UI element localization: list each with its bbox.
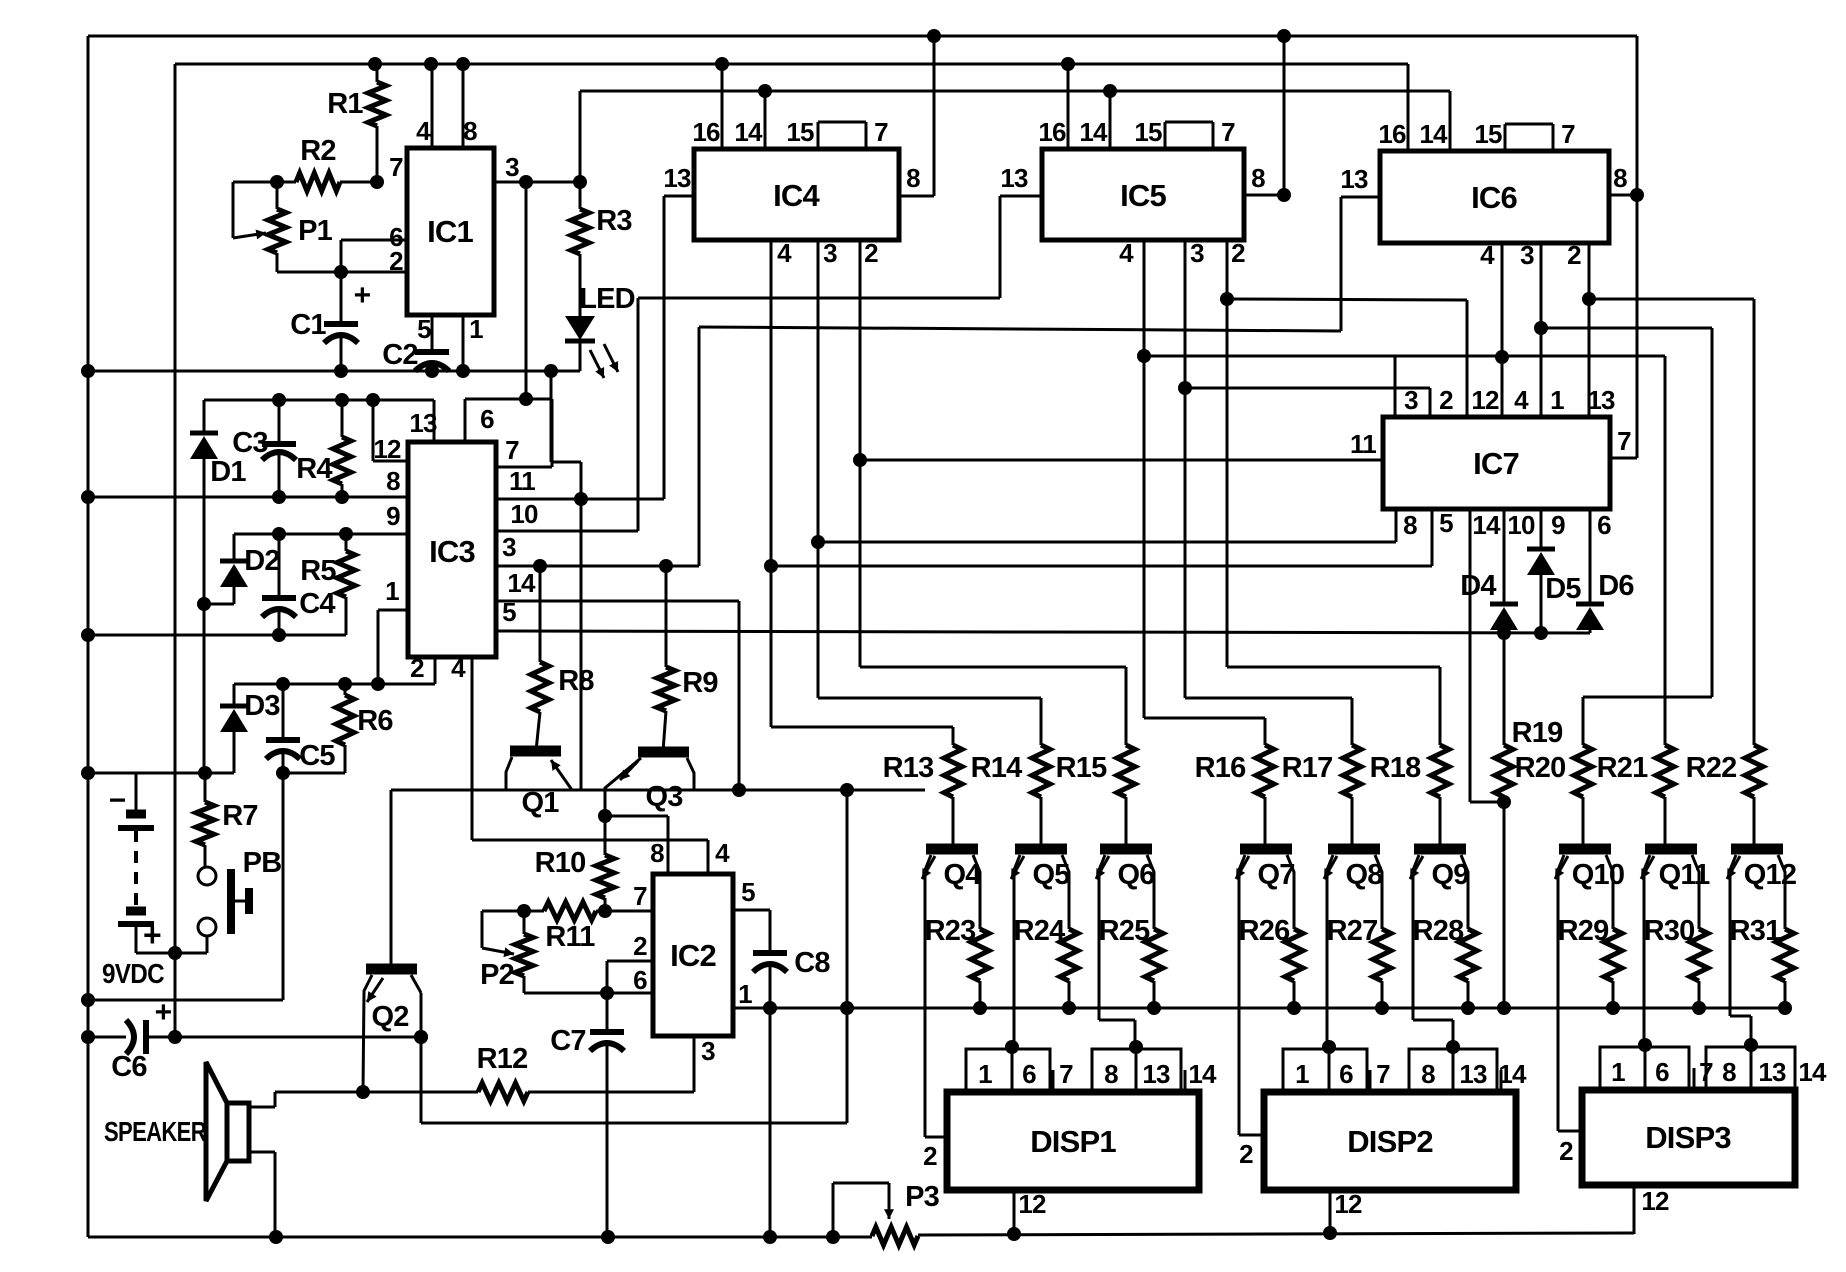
label IC3 pin5r bbox=[502, 597, 516, 627]
wire IC1 pin3 net bbox=[494, 175, 587, 189]
svg-text:15: 15 bbox=[1134, 117, 1162, 147]
wire V+ vertical x175 bbox=[168, 64, 182, 1044]
svg-text:R7: R7 bbox=[222, 800, 257, 832]
label IC5 pin15 bbox=[1134, 117, 1162, 147]
wire IC4 pin13 bbox=[664, 196, 694, 499]
svg-text:Q3: Q3 bbox=[645, 781, 683, 813]
label DISP1 pin8 bbox=[1104, 1059, 1118, 1089]
label C6 plus bbox=[155, 996, 172, 1029]
svg-text:R8: R8 bbox=[558, 665, 594, 697]
svg-text:9VDC: 9VDC bbox=[102, 958, 164, 989]
label R31 bbox=[1730, 915, 1781, 947]
wire P1 wiper bbox=[233, 182, 266, 239]
wire IC7 pin6 bbox=[1589, 509, 1592, 604]
label C5 bbox=[299, 740, 335, 772]
svg-text:SPEAKER: SPEAKER bbox=[104, 1116, 206, 1147]
svg-text:13: 13 bbox=[409, 408, 437, 438]
wire D3 anode rail y773 bbox=[88, 766, 234, 780]
svg-text:LED: LED bbox=[579, 283, 635, 315]
label Q9 bbox=[1431, 859, 1469, 891]
wire IC3 pin14 net bbox=[496, 601, 739, 790]
label D3 bbox=[244, 690, 280, 722]
wire Q2 right leg bbox=[414, 993, 428, 1123]
label IC3 pin3r bbox=[502, 532, 516, 562]
label IC5 pin14 bbox=[1079, 117, 1108, 147]
wire DISP3 pin12 bbox=[1633, 1185, 1636, 1234]
ic IC1 bbox=[407, 148, 494, 315]
svg-text:12: 12 bbox=[1471, 385, 1499, 415]
label R11 bbox=[545, 921, 595, 953]
transistor Q8 bbox=[1324, 849, 1382, 1045]
wire IC5 pin4 bbox=[1137, 240, 1265, 718]
label R25 bbox=[1099, 915, 1150, 947]
wire DISP1 pinbox813 bbox=[1092, 1040, 1181, 1092]
label C4 bbox=[299, 588, 335, 620]
wire IC2 pin4 bbox=[472, 657, 708, 874]
svg-text:7: 7 bbox=[1617, 426, 1631, 456]
label R16 bbox=[1195, 752, 1246, 784]
wire IC6 loop 15-7 bbox=[1505, 124, 1553, 151]
svg-text:R23: R23 bbox=[925, 915, 976, 947]
capacitor C6 bbox=[88, 1020, 428, 1054]
svg-text:14: 14 bbox=[1419, 119, 1448, 149]
label IC7 pin9 bbox=[1551, 510, 1565, 540]
svg-text:Q7: Q7 bbox=[1257, 859, 1294, 891]
svg-text:6: 6 bbox=[1597, 510, 1611, 540]
wire IC5 pin14 bbox=[1109, 91, 1112, 149]
svg-text:2: 2 bbox=[1439, 385, 1453, 415]
wire IC3 pin10 net y531 bbox=[496, 530, 638, 533]
label Q3 bbox=[645, 781, 683, 813]
label IC7 pin12 bbox=[1471, 385, 1499, 415]
capacitor C7 bbox=[590, 993, 624, 1237]
label DISP1 pin13 bbox=[1142, 1059, 1170, 1089]
svg-text:R19: R19 bbox=[1512, 717, 1563, 749]
label IC7 pin5 bbox=[1439, 508, 1453, 538]
label DISP1 pin1 bbox=[978, 1059, 992, 1089]
wire DISP2 pinbox813 bbox=[1409, 1040, 1497, 1092]
svg-text:6: 6 bbox=[1022, 1059, 1036, 1089]
label D5 bbox=[1545, 573, 1581, 605]
svg-text:14: 14 bbox=[1798, 1057, 1827, 1087]
svg-text:3: 3 bbox=[701, 1036, 715, 1066]
label DISP2 bbox=[1347, 1124, 1433, 1159]
wire IC1 pin5 bbox=[431, 315, 434, 352]
label DISP3 pin8 bbox=[1722, 1057, 1736, 1087]
resistor R19 bbox=[1495, 633, 1513, 1015]
svg-text:R26: R26 bbox=[1239, 915, 1290, 947]
label IC6 bbox=[1471, 180, 1517, 215]
svg-text:16: 16 bbox=[692, 117, 720, 147]
resistor R4 bbox=[333, 400, 351, 497]
label IC6 pin14 bbox=[1419, 119, 1448, 149]
label IC1 pin3 bbox=[505, 152, 519, 182]
wire IC3 pin1 bbox=[378, 610, 408, 684]
svg-text:7: 7 bbox=[1221, 117, 1235, 147]
svg-text:8: 8 bbox=[1613, 163, 1627, 193]
label DISP1 pin2 bbox=[923, 1141, 937, 1171]
wire IC7 pin3 bbox=[1394, 356, 1397, 417]
wire IC4 pin4 bbox=[764, 240, 953, 727]
label IC3 pin7r bbox=[505, 435, 519, 465]
svg-text:IC2: IC2 bbox=[670, 938, 716, 973]
wire IC4 pin14 bbox=[764, 91, 767, 149]
label IC5 bbox=[1120, 178, 1166, 213]
wire IC3 pin8 rail y497 bbox=[88, 490, 408, 504]
wire IC6 pin14 bbox=[1449, 91, 1452, 151]
label C3 bbox=[232, 427, 268, 459]
label R14 bbox=[971, 752, 1022, 784]
wire D1C3R4 rail y400 bbox=[204, 393, 434, 407]
ic IC2 bbox=[653, 874, 733, 1036]
resistor R31 bbox=[1776, 886, 1794, 1015]
label DISP2 pin8 bbox=[1421, 1059, 1435, 1089]
diode D6 bbox=[1576, 604, 1604, 633]
wire IC6 pin8 bbox=[1609, 194, 1637, 197]
svg-text:R9: R9 bbox=[682, 667, 718, 699]
wire IC3 pin11 net y499 bbox=[496, 492, 664, 506]
wire x581 Q1 emitter bbox=[551, 369, 581, 790]
svg-text:6: 6 bbox=[633, 965, 647, 995]
svg-text:2: 2 bbox=[1231, 238, 1245, 268]
svg-text:D1: D1 bbox=[210, 456, 246, 488]
wire net y299 to R22 bbox=[1753, 299, 1756, 745]
capacitor C8 bbox=[753, 953, 787, 1237]
potentiometer P1 bbox=[268, 182, 286, 272]
wire DISP1 pin12 bbox=[1013, 1190, 1016, 1234]
wire IC4 pin3 bbox=[811, 240, 1041, 698]
ic IC6 bbox=[1380, 151, 1609, 243]
svg-text:14: 14 bbox=[507, 568, 536, 598]
label IC7 pin8 bbox=[1403, 510, 1417, 540]
svg-text:IC3: IC3 bbox=[429, 534, 475, 569]
label battery minus bbox=[109, 784, 126, 817]
svg-text:4: 4 bbox=[416, 116, 431, 146]
wire net y327 bbox=[699, 327, 1341, 331]
svg-text:IC6: IC6 bbox=[1471, 180, 1517, 215]
label C2 bbox=[382, 339, 417, 371]
wire DISP3 pin7 tick bbox=[1693, 1068, 1696, 1090]
wire Q3 emitter to R10 bbox=[598, 809, 612, 855]
resistor R18 bbox=[1431, 667, 1449, 849]
svg-text:IC7: IC7 bbox=[1473, 446, 1519, 481]
label IC1 pin5 bbox=[417, 314, 431, 344]
label P1 bbox=[298, 215, 333, 247]
svg-text:14: 14 bbox=[1472, 510, 1501, 540]
wire net y566 bbox=[771, 509, 1432, 566]
transistor Q4 bbox=[922, 849, 980, 1137]
svg-text:3: 3 bbox=[502, 532, 516, 562]
label R19 bbox=[1512, 717, 1563, 749]
svg-text:8: 8 bbox=[1104, 1059, 1118, 1089]
svg-text:R17: R17 bbox=[1282, 752, 1333, 784]
potentiometer P3 bbox=[872, 1227, 918, 1245]
label R13 bbox=[883, 752, 934, 784]
wire C5 down to y1000 bbox=[88, 773, 283, 1000]
svg-text:2: 2 bbox=[633, 931, 647, 961]
wire DISP2 pin7 tick bbox=[1369, 1070, 1372, 1092]
capacitor C1 bbox=[324, 272, 358, 371]
label IC3 pin8 bbox=[386, 466, 400, 496]
label IC2 pin2 bbox=[633, 931, 647, 961]
transistor Q6 bbox=[1096, 849, 1154, 1045]
wire speaker top bbox=[249, 1092, 275, 1107]
label IC4 pin7 bbox=[874, 117, 888, 147]
svg-text:8: 8 bbox=[1403, 510, 1417, 540]
wire DISP3 pin2 bbox=[1558, 1130, 1582, 1133]
wire x847 link bbox=[840, 790, 854, 1123]
wire V+ rail y64 bbox=[175, 57, 1408, 71]
wire IC3 pin7 loop bbox=[465, 399, 552, 467]
wire DISP1 pinbox16 bbox=[966, 1040, 1050, 1092]
svg-text:15: 15 bbox=[1474, 119, 1502, 149]
svg-text:R4: R4 bbox=[296, 453, 332, 485]
wire IC6 pin13 bbox=[1341, 197, 1380, 331]
svg-text:8: 8 bbox=[386, 466, 400, 496]
diode D1 bbox=[190, 400, 218, 773]
label IC6 pin13 bbox=[1340, 164, 1368, 194]
resistor R30 bbox=[1690, 886, 1708, 1015]
svg-text:10: 10 bbox=[1507, 510, 1535, 540]
diode D2 bbox=[197, 534, 248, 611]
label IC2 pin7 bbox=[633, 881, 647, 911]
diode D4 bbox=[1490, 604, 1518, 633]
wire IC3 pin12 bbox=[373, 400, 408, 461]
label R20 bbox=[1515, 752, 1566, 784]
svg-text:8: 8 bbox=[650, 838, 664, 868]
svg-text:7: 7 bbox=[874, 117, 888, 147]
svg-text:+: + bbox=[155, 996, 172, 1029]
wire top border bbox=[88, 29, 1637, 43]
svg-text:8: 8 bbox=[1251, 163, 1265, 193]
wire IC7 pin9 bbox=[1540, 509, 1543, 549]
wire net y542 bbox=[818, 509, 1396, 542]
resistor R23 bbox=[971, 886, 989, 1015]
svg-text:R28: R28 bbox=[1413, 915, 1464, 947]
diode D3 bbox=[220, 684, 248, 773]
svg-text:1: 1 bbox=[1550, 385, 1564, 415]
label R24 bbox=[1014, 915, 1065, 947]
resistor R16 bbox=[1256, 718, 1274, 849]
label 9VDC bbox=[102, 958, 164, 989]
label IC7 pin4 bbox=[1514, 385, 1529, 415]
label IC6 pin7 bbox=[1561, 119, 1575, 149]
svg-text:4: 4 bbox=[1480, 240, 1495, 270]
label IC6 pin3 bbox=[1520, 240, 1534, 270]
label DISP3 bbox=[1645, 1120, 1731, 1155]
label R26 bbox=[1239, 915, 1290, 947]
wire IC6 pin16 bbox=[1407, 64, 1410, 151]
label PB bbox=[243, 847, 282, 879]
svg-text:5: 5 bbox=[741, 877, 755, 907]
wire Q2 collector baseline bbox=[391, 783, 925, 797]
label Q2 bbox=[371, 1001, 408, 1033]
label IC1 pin6 bbox=[389, 222, 403, 252]
label IC2 bbox=[670, 938, 716, 973]
label IC5 pin8 bbox=[1251, 163, 1265, 193]
svg-text:PB: PB bbox=[243, 847, 282, 879]
label P2 bbox=[480, 959, 514, 991]
label IC2 pin6 bbox=[633, 965, 647, 995]
svg-text:7: 7 bbox=[389, 152, 403, 182]
label IC1 bbox=[427, 214, 473, 249]
svg-text:R24: R24 bbox=[1014, 915, 1065, 947]
label DISP3 pin6 bbox=[1655, 1057, 1669, 1087]
svg-text:7: 7 bbox=[1059, 1059, 1073, 1089]
wire x699 up bbox=[698, 327, 701, 566]
label IC3 pin10r bbox=[510, 499, 538, 529]
svg-text:1: 1 bbox=[469, 314, 483, 344]
svg-text:D6: D6 bbox=[1598, 570, 1634, 602]
resistor R14 bbox=[1032, 698, 1050, 849]
svg-text:15: 15 bbox=[786, 117, 814, 147]
label D4 bbox=[1460, 570, 1496, 602]
ic IC3 bbox=[408, 442, 496, 657]
svg-text:Q2: Q2 bbox=[371, 1001, 408, 1033]
led LED bbox=[565, 316, 595, 371]
resistor R10 bbox=[596, 855, 614, 911]
label R22 bbox=[1686, 752, 1737, 784]
label P3 bbox=[905, 1181, 940, 1213]
svg-text:C4: C4 bbox=[299, 588, 335, 620]
label IC2 pin3 bbox=[701, 1036, 715, 1066]
svg-text:P2: P2 bbox=[480, 959, 514, 991]
label IC1 pin7 bbox=[389, 152, 403, 182]
label R7 bbox=[222, 800, 257, 832]
resistor R3 bbox=[571, 91, 589, 316]
wire bottom border right bbox=[918, 1226, 1634, 1241]
svg-text:R20: R20 bbox=[1515, 752, 1566, 784]
wire left border bus bbox=[81, 36, 95, 1237]
resistor R7 bbox=[196, 773, 214, 867]
svg-text:3: 3 bbox=[1190, 238, 1204, 268]
wire IC5 pin13 bbox=[1000, 196, 1042, 298]
svg-text:3: 3 bbox=[1520, 240, 1534, 270]
svg-text:1: 1 bbox=[1295, 1059, 1309, 1089]
label DISP1 bbox=[1030, 1124, 1116, 1159]
svg-text:R25: R25 bbox=[1099, 915, 1150, 947]
wire IC5 loop 15-7 bbox=[1165, 122, 1213, 149]
svg-text:Q5: Q5 bbox=[1032, 859, 1070, 891]
svg-text:3: 3 bbox=[1404, 385, 1418, 415]
wire DISP1 pin7 tick bbox=[1052, 1070, 1055, 1092]
wire IC3 pin2 rail y684 bbox=[234, 657, 435, 691]
label IC1 pin8 bbox=[463, 116, 477, 146]
label Q4 bbox=[943, 859, 981, 891]
label IC2 pin4 bbox=[715, 838, 730, 868]
svg-text:13: 13 bbox=[1000, 163, 1028, 193]
label IC3 pin14r bbox=[507, 568, 536, 598]
wire net y299 left bbox=[1227, 299, 1467, 417]
wire right border drop bbox=[1630, 36, 1644, 458]
wire IC5 pin2 bbox=[1220, 240, 1440, 667]
svg-text:R12: R12 bbox=[477, 1043, 528, 1075]
label Q12 bbox=[1744, 859, 1796, 891]
label D1 bbox=[210, 456, 246, 488]
wire net y328 right bbox=[1541, 328, 1712, 745]
svg-text:R31: R31 bbox=[1730, 915, 1781, 947]
svg-text:R14: R14 bbox=[971, 752, 1022, 784]
label DISP3 pin13 bbox=[1758, 1057, 1786, 1087]
label IC7 bbox=[1473, 446, 1519, 481]
label IC7 pin13 bbox=[1587, 385, 1615, 415]
label IC6 pin2 bbox=[1567, 240, 1581, 270]
wire R2 to wiper bbox=[233, 181, 277, 184]
label DISP3 pin1 bbox=[1611, 1057, 1625, 1087]
label C1 plus bbox=[354, 279, 371, 312]
label Q6 bbox=[1117, 859, 1155, 891]
wire IC7 pin10 bbox=[1503, 509, 1506, 604]
resistor R28 bbox=[1459, 886, 1477, 1015]
wire bottom border left bbox=[88, 1230, 872, 1244]
wire IC5 pin8 bbox=[1244, 36, 1291, 202]
svg-text:6: 6 bbox=[1655, 1057, 1669, 1087]
label Q8 bbox=[1345, 859, 1383, 891]
wire IC2 pin1 bbox=[733, 1007, 770, 1010]
label R21 bbox=[1597, 752, 1648, 784]
svg-text:2: 2 bbox=[923, 1141, 937, 1171]
svg-text:2: 2 bbox=[1559, 1136, 1573, 1166]
label R12 bbox=[477, 1043, 528, 1075]
label R4 bbox=[296, 453, 332, 485]
svg-text:IC4: IC4 bbox=[773, 178, 820, 213]
svg-text:R13: R13 bbox=[883, 752, 934, 784]
resistor R21 bbox=[1656, 745, 1674, 849]
label DISP3 pin12 bbox=[1641, 1186, 1669, 1216]
resistor R25 bbox=[1145, 886, 1163, 1015]
svg-text:1: 1 bbox=[385, 576, 399, 606]
wire Q2 emitter junction bbox=[356, 1085, 370, 1099]
wire IC7 pin14 bbox=[1470, 509, 1504, 802]
wire emitter rail y1008 bbox=[770, 1007, 1785, 1010]
svg-text:13: 13 bbox=[663, 163, 691, 193]
label IC4 pin13 bbox=[663, 163, 691, 193]
svg-text:+: + bbox=[143, 917, 161, 953]
wire net y388 bbox=[1185, 388, 1430, 417]
svg-text:5: 5 bbox=[502, 597, 516, 627]
wire DISP1 pin14 tick bbox=[1184, 1070, 1187, 1092]
wire IC4 pin8 bbox=[899, 36, 934, 196]
svg-text:P3: P3 bbox=[905, 1181, 940, 1213]
label R30 bbox=[1644, 915, 1695, 947]
display DISP2 bbox=[1264, 1092, 1516, 1190]
label Q5 bbox=[1032, 859, 1070, 891]
resistor R12 bbox=[275, 1083, 694, 1101]
label R27 bbox=[1327, 915, 1378, 947]
svg-text:7: 7 bbox=[505, 435, 519, 465]
switch PB actuator bbox=[231, 869, 249, 934]
svg-text:4: 4 bbox=[451, 653, 466, 683]
resistor R13 bbox=[944, 727, 962, 849]
label IC3 bbox=[429, 534, 475, 569]
wire speaker bottom bbox=[249, 1152, 275, 1237]
capacitor C3 bbox=[262, 400, 296, 497]
label IC7 pin11 bbox=[1350, 429, 1376, 459]
svg-text:12: 12 bbox=[1018, 1189, 1046, 1219]
wire IC5 pin3 bbox=[1178, 240, 1352, 698]
svg-text:13: 13 bbox=[1142, 1059, 1170, 1089]
label SPEAKER bbox=[104, 1116, 206, 1147]
label IC7 pin1 bbox=[1550, 385, 1564, 415]
svg-text:2: 2 bbox=[864, 238, 878, 268]
resistor R2 bbox=[270, 173, 384, 191]
svg-text:R30: R30 bbox=[1644, 915, 1695, 947]
resistor R27 bbox=[1373, 886, 1391, 1015]
wire IC1 pin2 bbox=[277, 265, 408, 279]
resistor R26 bbox=[1285, 886, 1303, 1015]
svg-text:−: − bbox=[109, 784, 126, 817]
svg-text:13: 13 bbox=[1587, 385, 1615, 415]
